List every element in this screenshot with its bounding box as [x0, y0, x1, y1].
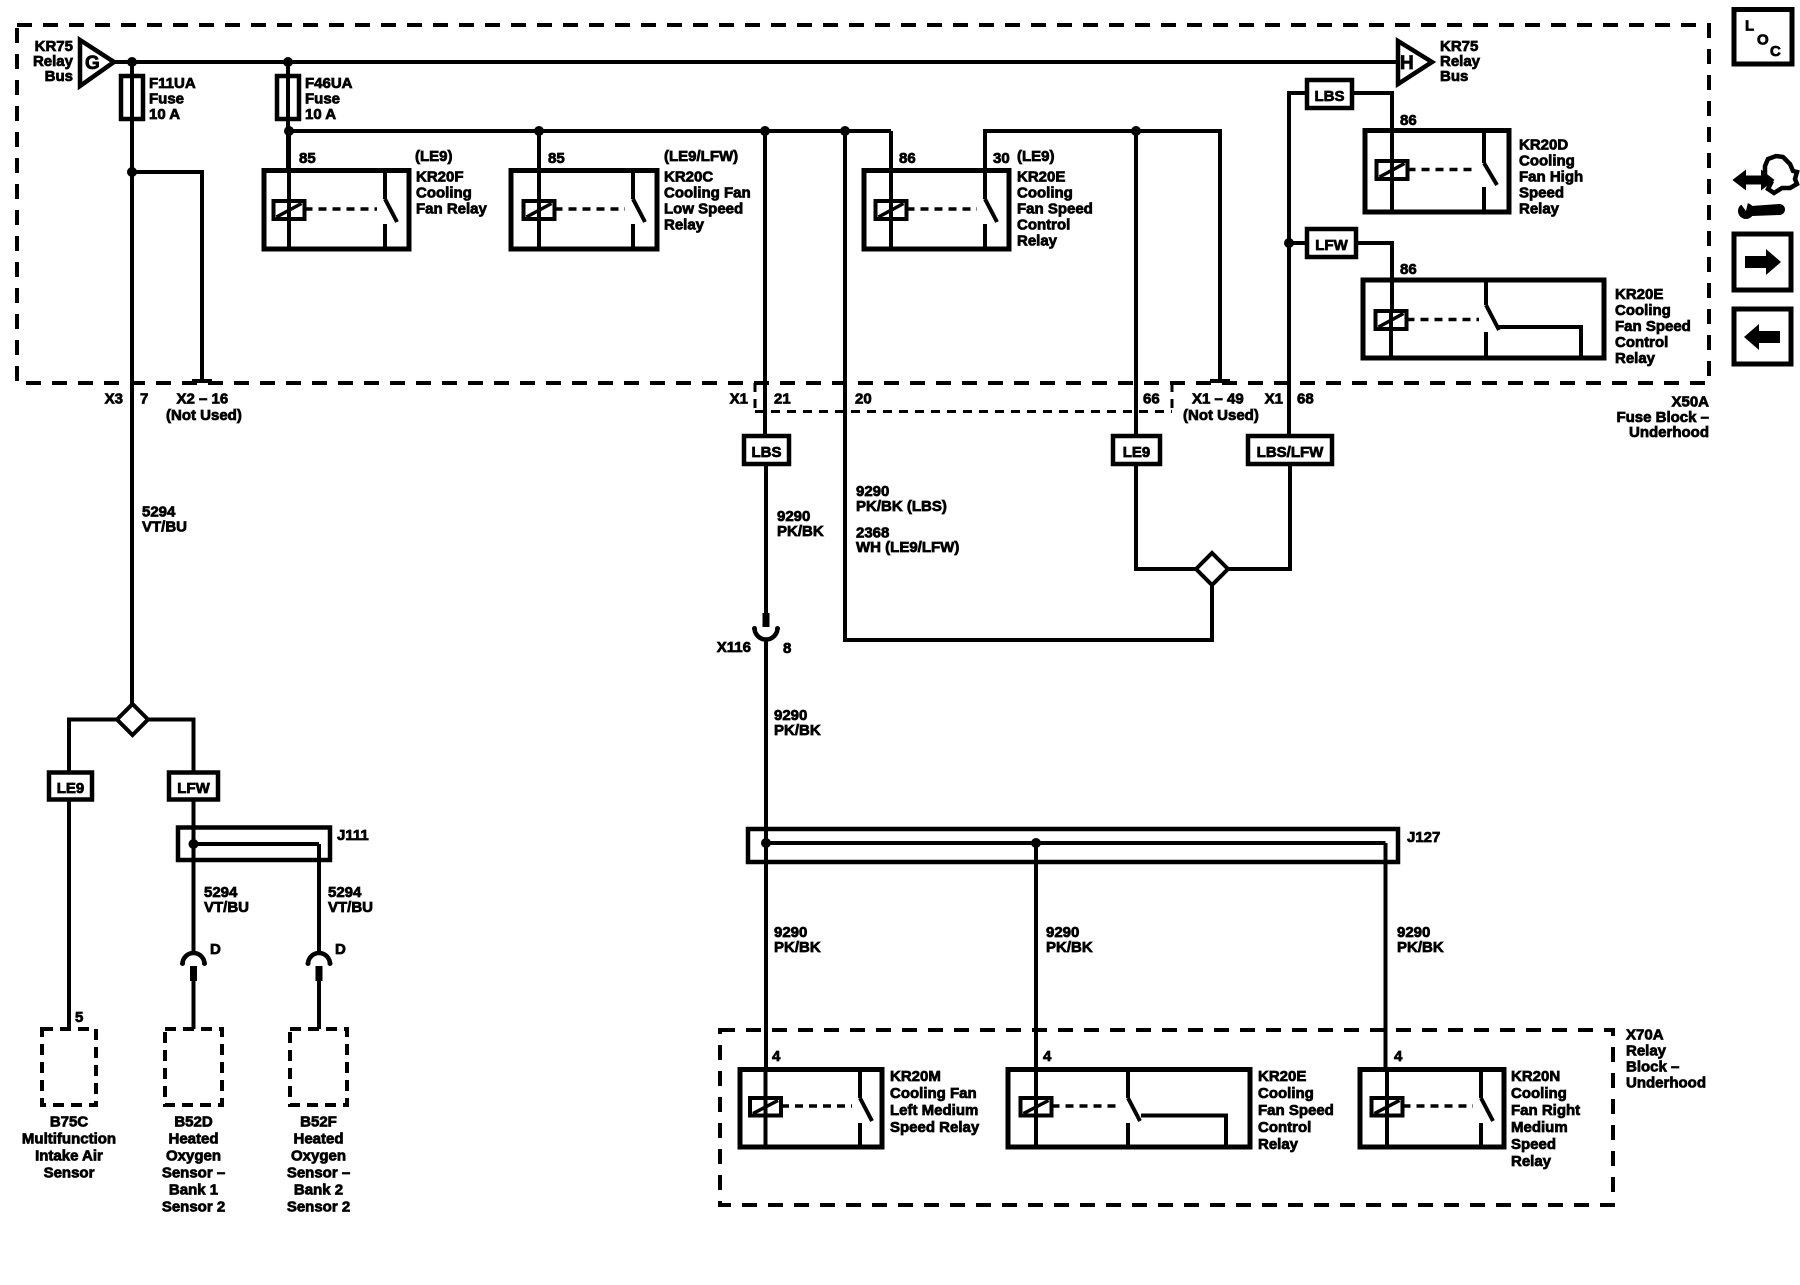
svg-text:X116: X116 — [717, 639, 751, 656]
wire: splice to LFW branch — [148, 720, 194, 773]
wire: J127 internal bus — [766, 841, 1386, 845]
svg-text:LE9: LE9 — [57, 780, 85, 797]
junction LBS/LFW vertical at LFW box — [1284, 238, 1294, 248]
terminal tick X1-49 (not used) — [1210, 379, 1230, 383]
switch KR20E top — [983, 171, 987, 200]
coil-switch link KR20N — [1403, 1104, 1474, 1108]
svg-text:10 A: 10 A — [149, 106, 180, 123]
svg-text:Fuse: Fuse — [305, 91, 340, 108]
svg-text:X1 – 49: X1 – 49 — [1192, 391, 1244, 408]
svg-text:X3: X3 — [105, 391, 123, 408]
off-page connector H (KR75 Relay Bus, right) — [1398, 41, 1432, 84]
wire: coil pin wire KR20E top — [889, 171, 893, 250]
terminal tick X2-16 (not used) — [192, 379, 212, 383]
svg-text:Bus: Bus — [1440, 68, 1468, 85]
connector code box LFW (top) — [1307, 229, 1356, 257]
wire: J127 middle leg (9290 PK/BK) — [1034, 843, 1038, 1070]
wire: branch to X2-16 pin — [132, 172, 202, 381]
wire: relay feed rail — [288, 129, 891, 133]
svg-text:85: 85 — [548, 150, 565, 167]
svg-text:X50A: X50A — [1671, 394, 1709, 411]
svg-text:Speed: Speed — [1519, 185, 1564, 202]
svg-text:Heated: Heated — [293, 1131, 343, 1148]
svg-text:LE9: LE9 — [1123, 444, 1151, 461]
junction feed rail at pin 21 wire — [760, 126, 770, 136]
connector X1 strip (dashed) — [755, 410, 1172, 413]
svg-text:86: 86 — [899, 150, 916, 167]
switch KR20D — [1482, 131, 1486, 164]
svg-text:Relay: Relay — [1511, 1153, 1552, 1170]
connector code box LBS (mid) — [744, 436, 789, 464]
wire: J111 left leg down (5294 VT/BU) — [192, 844, 196, 953]
svg-text:Oxygen: Oxygen — [166, 1148, 221, 1165]
icon back arrow box — [1734, 309, 1791, 364]
component B52D Heated Oxygen Sensor Bank 1 Sensor 2 (dashed box) — [165, 1029, 222, 1105]
svg-text:(LE9): (LE9) — [415, 148, 453, 165]
svg-text:86: 86 — [1400, 112, 1417, 129]
svg-text:X1: X1 — [730, 391, 748, 408]
svg-text:Cooling: Cooling — [1511, 1085, 1567, 1102]
relay KR20D box — [1365, 131, 1509, 213]
svg-text:X1: X1 — [1265, 391, 1283, 408]
svg-text:Fan Speed: Fan Speed — [1615, 318, 1691, 335]
wire: KR20E bottom switch output L — [1141, 1116, 1226, 1148]
svg-text:Underhood: Underhood — [1629, 424, 1709, 441]
svg-text:KR20D: KR20D — [1519, 137, 1568, 154]
connector code box LBS/LFW — [1248, 436, 1332, 464]
svg-text:Control: Control — [1615, 334, 1668, 351]
svg-text:(Not Used): (Not Used) — [1183, 407, 1259, 424]
svg-text:Fan Speed: Fan Speed — [1017, 201, 1093, 218]
coil-switch link KR20C — [555, 207, 626, 211]
svg-text:85: 85 — [299, 150, 316, 167]
junction feed rail at KR20C — [534, 126, 544, 136]
svg-text:J127: J127 — [1407, 829, 1440, 846]
svg-text:20: 20 — [855, 391, 872, 408]
svg-text:F11UA: F11UA — [149, 75, 196, 92]
svg-text:Relay: Relay — [1017, 233, 1058, 250]
wire: pin 66 to LE9 code box — [1134, 131, 1138, 436]
wire: LFW to J111 — [192, 800, 196, 845]
coil KR20M — [750, 1098, 781, 1116]
fuse F46UA 10 A — [277, 76, 299, 119]
icon box LOC — [1734, 10, 1792, 65]
svg-text:4: 4 — [1394, 1048, 1403, 1065]
svg-text:L: L — [1745, 18, 1754, 35]
wire: LE9 to B75C sensor — [67, 800, 71, 1030]
svg-text:Fuse: Fuse — [149, 91, 184, 108]
coil KR20F — [274, 201, 305, 219]
wire: coil pin wire KR20E bottom — [1034, 1070, 1038, 1148]
wire: LE9 box to splice — [1136, 464, 1196, 569]
wire: splice to LE9 branch — [69, 720, 117, 773]
svg-text:Fan Relay: Fan Relay — [416, 201, 488, 218]
svg-text:D: D — [210, 941, 221, 958]
svg-text:21: 21 — [774, 391, 791, 408]
relay KR20N box — [1360, 1070, 1504, 1148]
svg-text:Cooling: Cooling — [1017, 185, 1073, 202]
wire: LFW box to KR20E#2 pin 86 — [1356, 243, 1392, 311]
svg-text:Intake Air: Intake Air — [35, 1148, 103, 1165]
wire: coil pin wire KR20F — [287, 131, 291, 249]
inline connector D (B52F) — [308, 953, 330, 964]
wire: rail down to KR20E pin 86 — [889, 131, 893, 172]
component B75C Multifunction Intake Air Sensor (dashed box) — [42, 1029, 96, 1105]
svg-text:Control: Control — [1017, 217, 1070, 234]
svg-text:8: 8 — [783, 640, 791, 657]
svg-text:PK/BK: PK/BK — [1397, 939, 1444, 956]
svg-text:(LE9): (LE9) — [1017, 148, 1055, 165]
switch KR20E bottom — [1126, 1070, 1130, 1099]
switch KR20N — [1479, 1070, 1483, 1099]
icon service/repair (arrows and wrench) — [1734, 172, 1773, 189]
svg-text:Low Speed: Low Speed — [664, 201, 743, 218]
svg-text:KR20E: KR20E — [1615, 286, 1663, 303]
fuse block X50A - Underhood (dashed outline) — [17, 25, 1709, 383]
junction J127 left — [761, 838, 771, 848]
svg-text:68: 68 — [1297, 391, 1314, 408]
svg-text:(Not Used): (Not Used) — [166, 407, 242, 424]
junction below F11UA — [127, 167, 137, 177]
svg-text:O: O — [1757, 32, 1769, 49]
relay block X70A - Underhood (dashed outline) — [720, 1030, 1613, 1205]
switch KR20C — [631, 171, 635, 200]
svg-text:Cooling Fan: Cooling Fan — [890, 1085, 977, 1102]
component B52F Heated Oxygen Sensor Bank 2 Sensor 2 (dashed box) — [290, 1029, 347, 1105]
svg-text:Speed Relay: Speed Relay — [890, 1119, 980, 1136]
svg-text:Oxygen: Oxygen — [291, 1148, 346, 1165]
coil KR20E bottom — [1021, 1098, 1052, 1116]
connector code box LBS (top) — [1307, 80, 1352, 108]
svg-text:VT/BU: VT/BU — [204, 899, 249, 916]
wire: bus through fuse F46UA — [286, 62, 290, 172]
svg-text:B52D: B52D — [174, 1114, 213, 1131]
svg-text:KR20E: KR20E — [1258, 1068, 1306, 1085]
svg-text:Relay: Relay — [664, 217, 705, 234]
junction pin30 rail at pin 66 wire — [1131, 126, 1141, 136]
svg-text:J111: J111 — [337, 827, 369, 844]
svg-text:KR20F: KR20F — [416, 169, 464, 186]
wire: LBS box to KR20D pin 86 — [1352, 93, 1392, 161]
wire: LBS/LFW box to splice — [1228, 464, 1290, 569]
svg-text:Cooling: Cooling — [1258, 1085, 1314, 1102]
svg-text:VT/BU: VT/BU — [142, 519, 187, 536]
wire: J111 right leg down (5294 VT/BU) — [317, 844, 321, 953]
wire: coil pin wire KR20N — [1385, 1070, 1389, 1148]
connector code box LFW (left) — [169, 773, 218, 800]
junction J127 middle — [1031, 838, 1041, 848]
svg-text:(LE9/LFW): (LE9/LFW) — [664, 148, 738, 165]
junction feed rail at pin 20 wire — [840, 126, 850, 136]
inline connector X116 pin 8 — [763, 613, 770, 627]
svg-text:Sensor –: Sensor – — [162, 1165, 225, 1182]
svg-text:Fan High: Fan High — [1519, 169, 1583, 186]
svg-text:Bus: Bus — [45, 68, 73, 85]
svg-text:Fan Speed: Fan Speed — [1258, 1102, 1334, 1119]
svg-text:LBS: LBS — [752, 444, 782, 461]
svg-text:F46UA: F46UA — [305, 75, 353, 92]
wire: LBS box to X116 — [764, 464, 768, 613]
wire: J111 internal bus — [194, 842, 320, 846]
wire: J127 through left leg (9290 PK/BK) — [764, 640, 768, 1070]
svg-text:KR20C: KR20C — [664, 169, 713, 186]
switch KR20F — [383, 171, 387, 200]
svg-text:Cooling: Cooling — [1615, 302, 1671, 319]
wire: KR75 relay bus (horizontal) — [114, 60, 1398, 64]
svg-text:PK/BK: PK/BK — [777, 523, 824, 540]
svg-text:LFW: LFW — [177, 780, 210, 797]
coil-switch link KR20E right — [1407, 318, 1480, 322]
svg-text:Sensor 2: Sensor 2 — [287, 1199, 350, 1216]
svg-text:66: 66 — [1143, 391, 1160, 408]
switch KR20M — [858, 1070, 862, 1099]
svg-text:PK/BK: PK/BK — [1046, 939, 1093, 956]
svg-text:Cooling: Cooling — [1519, 153, 1575, 170]
junction on bus at F46UA — [283, 57, 293, 67]
svg-text:C: C — [1770, 43, 1781, 60]
svg-text:Block –: Block – — [1626, 1059, 1679, 1076]
svg-text:Speed: Speed — [1511, 1136, 1556, 1153]
svg-text:5: 5 — [75, 1009, 83, 1026]
relay KR20E (speed control, bottom) box — [1008, 1070, 1250, 1148]
svg-text:4: 4 — [1043, 1048, 1052, 1065]
relay KR20F box — [264, 171, 409, 250]
wire: LBS vertical feed (pin 68 net) — [1289, 93, 1307, 436]
icon forward arrow box — [1734, 234, 1791, 290]
relay KR20E (speed control, fuse block) box — [864, 171, 1009, 250]
relay KR20M box — [740, 1070, 882, 1148]
svg-text:KR20E: KR20E — [1017, 169, 1065, 186]
wire: pin 30 KR20E to X1-49 — [985, 131, 1220, 381]
svg-text:Relay: Relay — [1519, 201, 1560, 218]
junction on bus at F11UA — [127, 57, 137, 67]
svg-text:LFW: LFW — [1315, 237, 1348, 254]
svg-text:Cooling: Cooling — [416, 185, 472, 202]
splice pack J127 box — [748, 829, 1398, 862]
junction feed rail at F46UA drop — [284, 126, 294, 136]
svg-text:Control: Control — [1258, 1119, 1311, 1136]
svg-text:X2 – 16: X2 – 16 — [177, 391, 229, 408]
svg-text:7: 7 — [140, 391, 148, 408]
coil-switch link KR20F — [305, 207, 378, 211]
svg-text:WH (LE9/LFW): WH (LE9/LFW) — [856, 539, 959, 556]
svg-text:Fan Right: Fan Right — [1511, 1102, 1580, 1119]
off-page connector G (KR75 Relay Bus, left) — [80, 40, 114, 86]
svg-text:Relay: Relay — [1258, 1136, 1299, 1153]
svg-text:Relay: Relay — [1626, 1043, 1667, 1060]
svg-text:H: H — [1400, 53, 1414, 74]
svg-text:B75C: B75C — [50, 1114, 89, 1131]
wire: pin 20 to right splice (9290 PK/BK LBS / 2368 WH) — [845, 131, 1212, 640]
wire: coil pin wire KR20M — [764, 1070, 768, 1148]
svg-text:KR20N: KR20N — [1511, 1068, 1560, 1085]
fuse F11UA 10 A — [121, 76, 143, 119]
svg-text:Sensor –: Sensor – — [287, 1165, 350, 1182]
wire: D to B52D sensor — [192, 981, 196, 1029]
switch KR20E right — [1484, 280, 1488, 305]
svg-text:Heated: Heated — [168, 1131, 218, 1148]
svg-text:10 A: 10 A — [305, 106, 336, 123]
coil-switch link KR20E bottom — [1052, 1104, 1121, 1108]
svg-text:Multifunction: Multifunction — [22, 1131, 116, 1148]
connector code box LE9 (left) — [49, 773, 92, 800]
connector code box LE9 (mid) — [1113, 436, 1160, 464]
wire: coil pin wire KR20D — [1390, 161, 1394, 212]
svg-text:G: G — [85, 53, 100, 74]
coil-switch link KR20D — [1408, 168, 1478, 172]
coil-switch link KR20E top — [907, 207, 978, 211]
wire: LFW box stub — [1289, 241, 1307, 245]
wire: 5294 VT/BU main down to splice (through pin X3-7) — [130, 172, 134, 705]
svg-text:VT/BU: VT/BU — [328, 899, 373, 916]
svg-text:30: 30 — [993, 150, 1010, 167]
coil KR20C — [524, 201, 555, 219]
svg-text:Bank 2: Bank 2 — [294, 1182, 343, 1199]
coil-switch link KR20M — [781, 1104, 852, 1108]
wire: KR20E right switch output L — [1497, 327, 1581, 358]
svg-text:86: 86 — [1400, 261, 1417, 278]
svg-text:PK/BK: PK/BK — [774, 939, 821, 956]
splice diamond (right) — [1196, 553, 1228, 585]
coil KR20E top — [876, 201, 907, 219]
wire: J127 right leg (9290 PK/BK) — [1384, 843, 1388, 1070]
wire: bus through fuse F11UA — [130, 62, 134, 172]
relay KR20C box — [511, 171, 657, 250]
splice pack J111 box — [178, 828, 330, 861]
wire: D to B52F sensor — [317, 981, 321, 1029]
svg-text:D: D — [335, 941, 346, 958]
svg-text:Medium: Medium — [1511, 1119, 1568, 1136]
svg-text:X70A: X70A — [1626, 1027, 1664, 1044]
svg-text:Bank 1: Bank 1 — [169, 1182, 218, 1199]
svg-text:Sensor: Sensor — [44, 1165, 95, 1182]
inline connector D (B52D) — [183, 953, 205, 964]
svg-text:Sensor 2: Sensor 2 — [162, 1199, 225, 1216]
svg-text:Left Medium: Left Medium — [890, 1102, 978, 1119]
junction in J111 — [189, 839, 199, 849]
svg-text:Relay: Relay — [1615, 350, 1656, 367]
coil KR20N — [1372, 1098, 1403, 1116]
splice diamond (left) — [117, 704, 148, 735]
svg-text:KR20M: KR20M — [890, 1068, 941, 1085]
coil KR20E right — [1376, 311, 1407, 329]
coil KR20D — [1377, 161, 1408, 179]
svg-text:LBS/LFW: LBS/LFW — [1257, 444, 1324, 461]
svg-text:4: 4 — [772, 1048, 781, 1065]
svg-text:LBS: LBS — [1315, 88, 1345, 105]
relay KR20E (speed control, right) box — [1363, 280, 1604, 358]
wire: coil pin wire KR20C — [537, 131, 541, 249]
svg-text:Cooling Fan: Cooling Fan — [664, 185, 751, 202]
svg-text:B52F: B52F — [300, 1114, 337, 1131]
svg-text:PK/BK (LBS): PK/BK (LBS) — [856, 498, 947, 515]
wire: X116 to J127 (9290 PK/BK) — [764, 640, 768, 844]
wire: pin 21 to LBS code box — [763, 131, 767, 436]
svg-text:PK/BK: PK/BK — [774, 722, 821, 739]
wire: coil pin wire KR20E right — [1389, 311, 1393, 358]
svg-text:Underhood: Underhood — [1626, 1075, 1706, 1092]
